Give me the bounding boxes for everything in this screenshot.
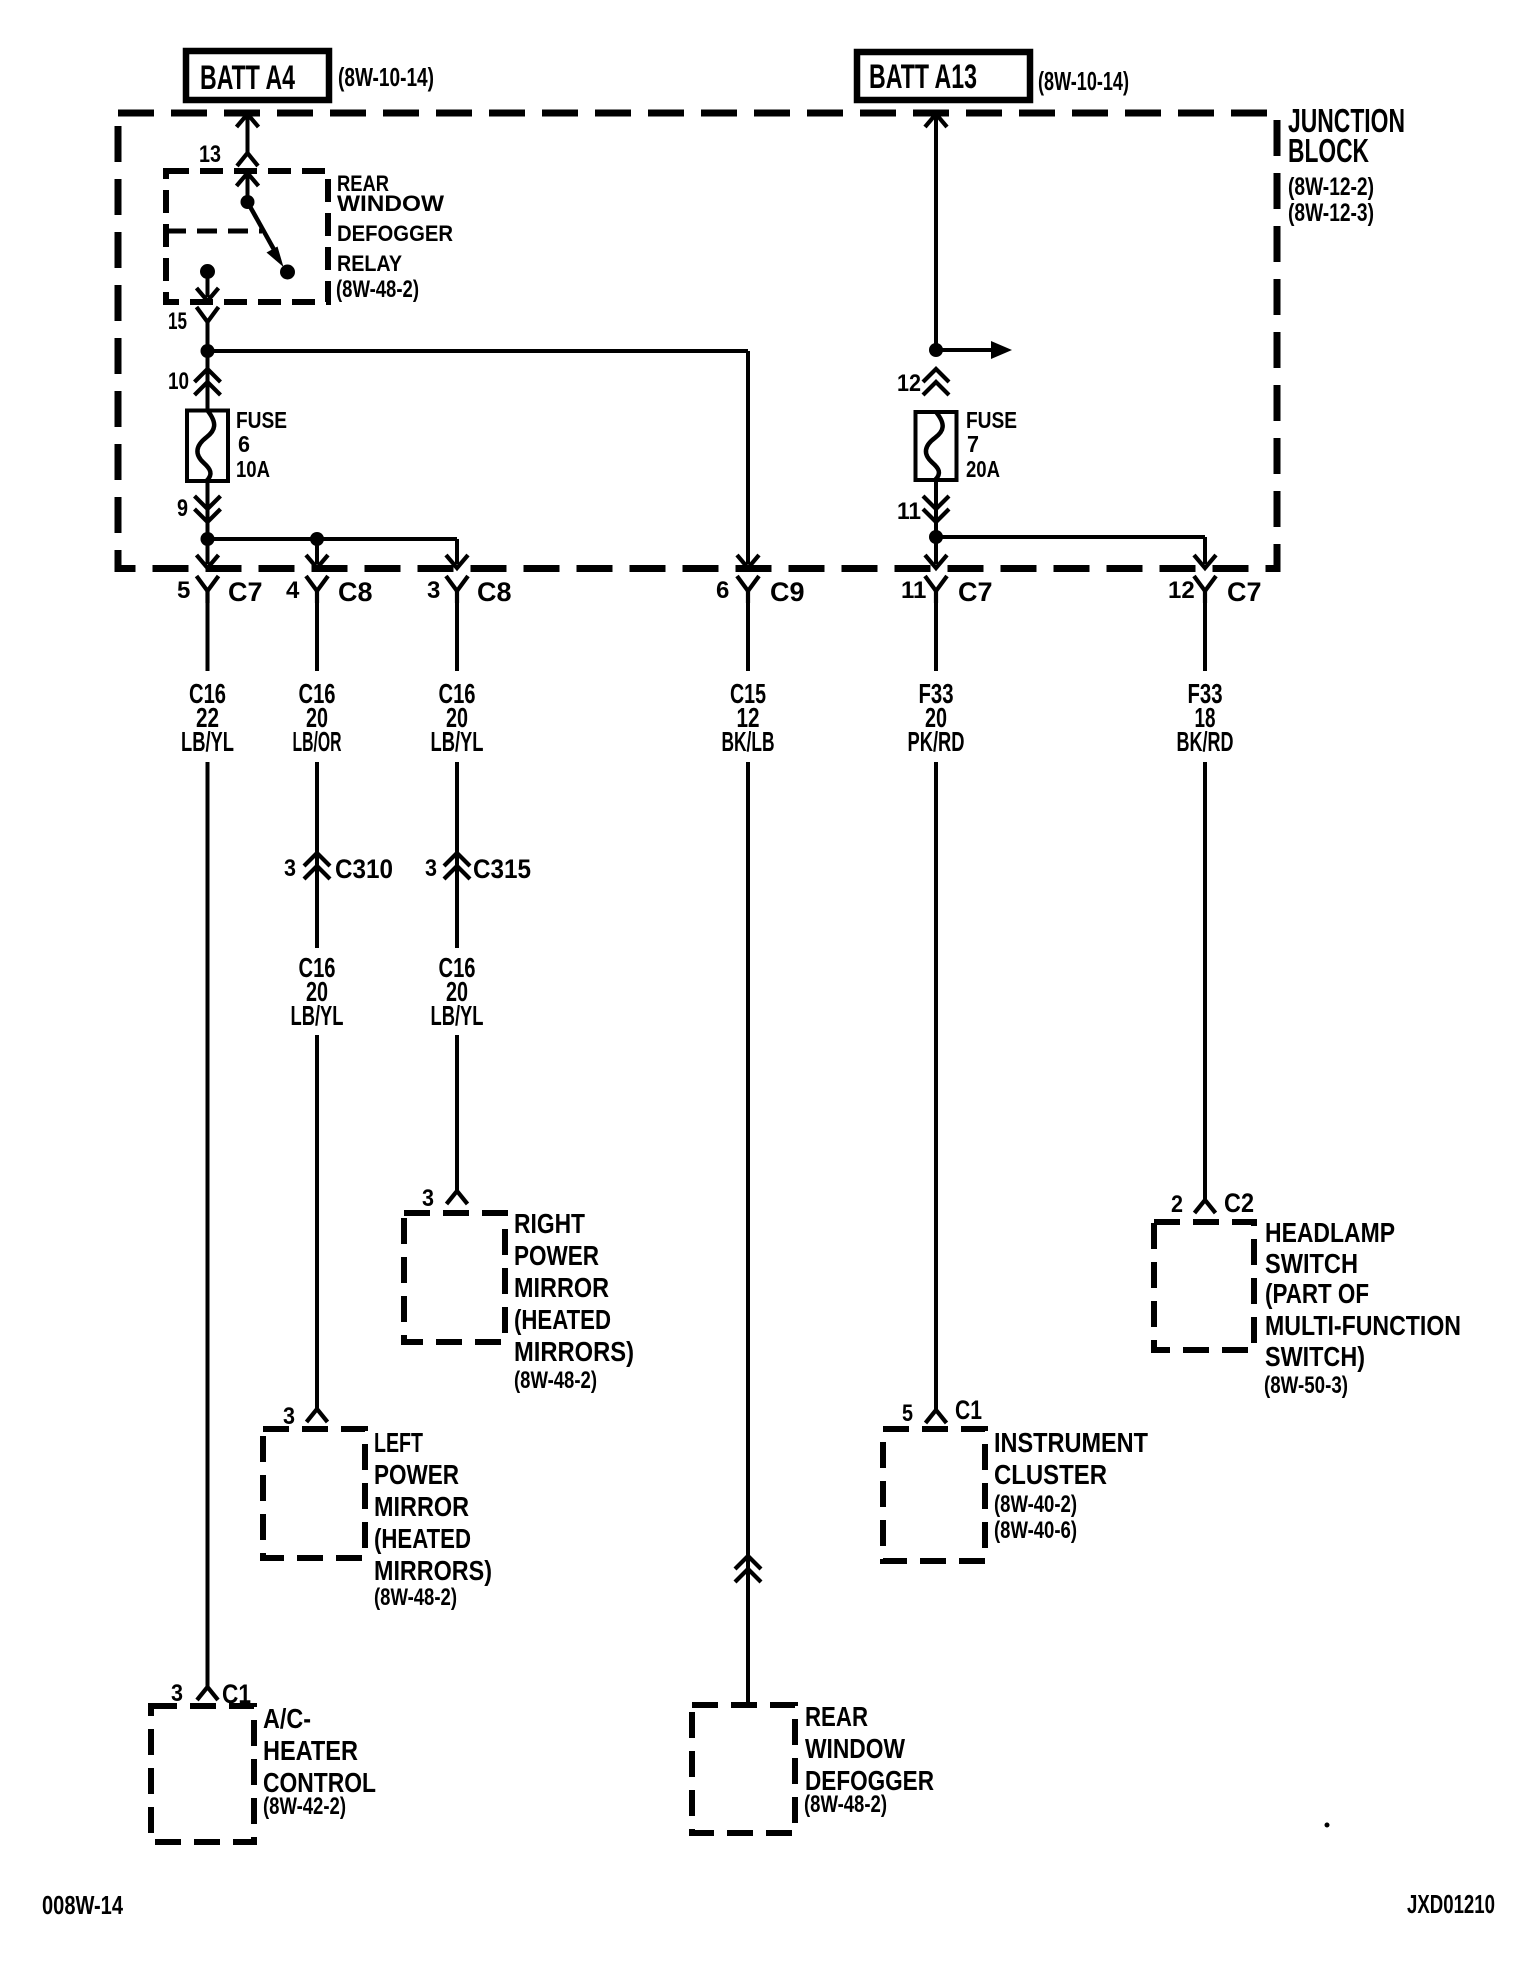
svg-text:WINDOW: WINDOW [805, 1733, 905, 1764]
svg-text:3: 3 [427, 577, 440, 604]
svg-text:POWER: POWER [374, 1459, 459, 1490]
svg-text:BK/LB: BK/LB [722, 726, 775, 757]
svg-text:C2: C2 [1224, 1188, 1254, 1218]
svg-text:11: 11 [901, 577, 926, 604]
svg-text:C1: C1 [955, 1395, 982, 1425]
svg-text:HEADLAMP: HEADLAMP [1265, 1217, 1395, 1248]
svg-text:13: 13 [199, 141, 221, 168]
svg-text:C7: C7 [1227, 577, 1262, 607]
svg-text:INSTRUMENT: INSTRUMENT [994, 1427, 1148, 1458]
svg-text:FUSE: FUSE [966, 407, 1017, 433]
svg-text:2: 2 [1171, 1191, 1183, 1218]
svg-text:HEATER: HEATER [263, 1735, 358, 1766]
svg-text:MIRROR: MIRROR [514, 1272, 609, 1303]
svg-text:7: 7 [967, 431, 979, 457]
svg-text:RELAY: RELAY [337, 251, 402, 276]
svg-text:PK/RD: PK/RD [908, 726, 965, 757]
svg-text:BLOCK: BLOCK [1288, 132, 1369, 169]
svg-text:3: 3 [171, 1680, 183, 1707]
svg-text:FUSE: FUSE [236, 407, 287, 433]
svg-text:3: 3 [283, 1403, 295, 1430]
svg-text:A/C-: A/C- [263, 1703, 311, 1734]
svg-text:POWER: POWER [514, 1240, 599, 1271]
svg-text:(8W-48-2): (8W-48-2) [514, 1367, 597, 1394]
svg-text:3: 3 [425, 855, 437, 882]
svg-text:(HEATED: (HEATED [374, 1523, 471, 1554]
svg-text:(8W-40-6): (8W-40-6) [994, 1517, 1077, 1544]
svg-text:REAR: REAR [805, 1701, 868, 1732]
svg-text:(8W-42-2): (8W-42-2) [263, 1793, 346, 1820]
svg-text:LB/YL: LB/YL [431, 726, 484, 757]
svg-text:(8W-50-3): (8W-50-3) [1264, 1372, 1348, 1399]
svg-text:LEFT: LEFT [374, 1427, 423, 1458]
svg-text:JXD01210: JXD01210 [1407, 1889, 1495, 1919]
svg-text:(8W-40-2): (8W-40-2) [994, 1491, 1077, 1518]
svg-text:9: 9 [177, 495, 188, 522]
svg-text:C7: C7 [228, 577, 263, 607]
svg-text:C315: C315 [473, 854, 531, 884]
svg-text:12: 12 [1168, 577, 1195, 604]
svg-text:C8: C8 [338, 577, 373, 607]
svg-text:6: 6 [238, 431, 250, 457]
svg-text:SWITCH): SWITCH) [1265, 1341, 1365, 1372]
svg-text:6: 6 [716, 577, 729, 604]
svg-text:(HEATED: (HEATED [514, 1304, 611, 1335]
svg-text:LB/OR: LB/OR [293, 726, 342, 757]
svg-text:(8W-10-14): (8W-10-14) [338, 62, 434, 92]
svg-text:C9: C9 [770, 577, 805, 607]
svg-text:LB/YL: LB/YL [431, 1000, 484, 1031]
svg-text:4: 4 [286, 577, 300, 604]
svg-text:MULTI-FUNCTION: MULTI-FUNCTION [1265, 1310, 1461, 1341]
svg-text:SWITCH: SWITCH [1265, 1248, 1358, 1279]
svg-text:(8W-48-2): (8W-48-2) [804, 1791, 887, 1818]
svg-text:(8W-48-2): (8W-48-2) [374, 1584, 457, 1611]
svg-text:LB/YL: LB/YL [291, 1000, 344, 1031]
svg-text:BATT A4: BATT A4 [200, 59, 295, 97]
svg-text:BK/RD: BK/RD [1177, 726, 1234, 757]
svg-text:DEFOGGER: DEFOGGER [337, 221, 453, 246]
svg-text:15: 15 [168, 308, 187, 335]
svg-text:C8: C8 [477, 577, 512, 607]
svg-text:(8W-12-3): (8W-12-3) [1288, 199, 1374, 227]
svg-text:C310: C310 [335, 854, 393, 884]
svg-text:12: 12 [897, 370, 921, 397]
svg-text:RIGHT: RIGHT [514, 1208, 585, 1239]
svg-text:WINDOW: WINDOW [337, 191, 444, 216]
svg-text:CLUSTER: CLUSTER [994, 1459, 1107, 1490]
svg-text:(PART OF: (PART OF [1265, 1278, 1369, 1309]
svg-text:20A: 20A [966, 456, 1000, 482]
svg-text:(8W-12-2): (8W-12-2) [1288, 173, 1374, 201]
svg-text:10A: 10A [236, 456, 270, 482]
svg-text:MIRRORS): MIRRORS) [374, 1555, 492, 1586]
svg-text:LB/YL: LB/YL [181, 726, 234, 757]
svg-text:3: 3 [284, 855, 296, 882]
svg-text:008W-14: 008W-14 [42, 1890, 123, 1920]
svg-text:(8W-10-14): (8W-10-14) [1038, 66, 1129, 96]
svg-text:11: 11 [897, 498, 921, 525]
svg-text:5: 5 [177, 577, 190, 604]
svg-text:MIRRORS): MIRRORS) [514, 1336, 634, 1367]
svg-text:5: 5 [902, 1400, 913, 1427]
svg-text:BATT A13: BATT A13 [869, 58, 977, 96]
svg-text:C7: C7 [958, 577, 993, 607]
svg-text:3: 3 [422, 1185, 434, 1212]
svg-text:MIRROR: MIRROR [374, 1491, 469, 1522]
svg-text:10: 10 [168, 368, 189, 395]
svg-text:(8W-48-2): (8W-48-2) [336, 276, 419, 303]
